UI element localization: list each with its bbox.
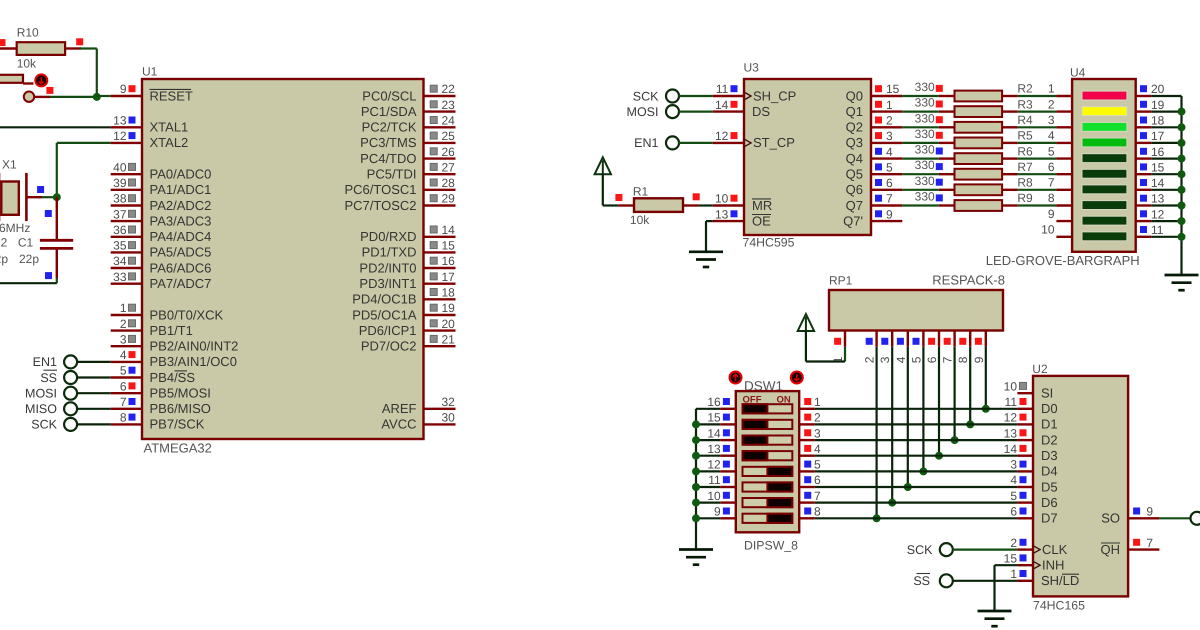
- R1 left pin state square (red): [615, 194, 622, 201]
- svg-text:5: 5: [814, 458, 821, 472]
- wire U3 Q5 to R7: [902, 173, 939, 175]
- junction DSW1 bus row 27: [692, 514, 700, 522]
- svg-text:22p: 22p: [19, 252, 39, 266]
- svg-text:9: 9: [1146, 505, 1153, 519]
- U1 pin 24 PC2/TCK: [424, 126, 456, 128]
- wire R8 to U4 pin 7: [1018, 189, 1057, 191]
- R7 left pin state square: [936, 163, 943, 170]
- svg-text:13: 13: [707, 442, 721, 456]
- svg-text:Q1: Q1: [846, 104, 863, 119]
- svg-text:330: 330: [915, 80, 935, 94]
- resistor R5 330 body: [955, 138, 1003, 149]
- svg-text:PA5/ADC5: PA5/ADC5: [150, 245, 212, 260]
- svg-text:PB0/T0/XCK: PB0/T0/XCK: [150, 307, 224, 322]
- svg-text:EN1: EN1: [634, 136, 658, 150]
- svg-text:PD6/ICP1: PD6/ICP1: [359, 323, 417, 338]
- U2 pin 14 D3: [1017, 455, 1033, 457]
- svg-text:OE: OE: [752, 213, 771, 228]
- U2 pin 7 QH: [1128, 548, 1159, 550]
- svg-text:13: 13: [113, 114, 127, 128]
- svg-text:SH/LD: SH/LD: [1041, 573, 1079, 588]
- svg-text:1: 1: [1048, 82, 1055, 96]
- wire DSW1 pin 4 to U2 D3: [815, 455, 1018, 457]
- svg-text:10: 10: [1004, 379, 1018, 393]
- power symbol VCC arrow near R1: [595, 157, 611, 174]
- DSW1 pin 6: [799, 486, 815, 488]
- DSW1 pin 8: [799, 517, 815, 519]
- ground symbol below U3 OE: [689, 250, 723, 253]
- R9 left pin state square: [936, 194, 943, 201]
- wire node to U1 RESET pin: [97, 95, 111, 97]
- svg-text:SH_CP: SH_CP: [753, 88, 796, 103]
- wire RP1 pin 6 down to D3 net: [938, 347, 940, 456]
- svg-text:1: 1: [120, 301, 127, 315]
- svg-text:14: 14: [715, 98, 729, 112]
- svg-text:U3: U3: [744, 61, 760, 75]
- svg-text:12: 12: [1151, 207, 1165, 221]
- wire RP1 pin 4 down to D5 net: [907, 347, 909, 487]
- svg-text:2: 2: [120, 317, 127, 331]
- capacitor C1 top plate: [40, 239, 73, 242]
- svg-text:4: 4: [1010, 473, 1017, 487]
- U3 pin 6 Q6: [871, 189, 902, 191]
- svg-text:35: 35: [113, 239, 127, 253]
- DSW1 pin 15: [720, 423, 736, 425]
- U1 pin 6 PB5/MOSI: [111, 392, 142, 394]
- svg-text:PD7/OC2: PD7/OC2: [361, 339, 417, 354]
- ground rail right of U4: [1180, 96, 1182, 275]
- wire DSW1 pin 5 to U2 D4: [815, 470, 1018, 472]
- svg-text:D6: D6: [1041, 495, 1058, 510]
- U1 pin 40 PA0/ADC0: [111, 173, 142, 175]
- pushbutton actuator (red circle): [35, 74, 47, 86]
- RP1 pin 9: [985, 331, 987, 347]
- svg-text:PA3/ADC3: PA3/ADC3: [150, 213, 212, 228]
- U2 pin 12 D1: [1017, 423, 1033, 425]
- U4 pin 3: [1056, 126, 1072, 128]
- svg-text:PC2/TCK: PC2/TCK: [362, 120, 417, 135]
- U1 pin 2 PB1/T1: [111, 329, 142, 331]
- svg-text:7: 7: [1146, 536, 1153, 550]
- R9 left pin: [939, 204, 955, 206]
- svg-text:ATMEGA32: ATMEGA32: [144, 441, 212, 456]
- DSW1 pin 10: [720, 501, 736, 503]
- svg-text:PB3/AIN1/OC0: PB3/AIN1/OC0: [150, 354, 237, 369]
- pin state square C1 bottom (blue): [45, 272, 52, 279]
- R3 right pin: [1002, 110, 1018, 112]
- U4 pin 4: [1056, 142, 1072, 144]
- svg-text:R4: R4: [1017, 113, 1033, 127]
- U1 pin 25 PC3/TMS: [424, 142, 456, 144]
- svg-text:22p: 22p: [0, 252, 8, 266]
- wire terminal MOSI to U3: [679, 110, 713, 112]
- svg-text:PC5/TDI: PC5/TDI: [367, 167, 417, 182]
- pin state square C1 top (blue): [45, 210, 52, 217]
- svg-text:23: 23: [442, 98, 456, 112]
- U1 pin 13 XTAL1: [111, 126, 142, 128]
- wire U4 pin 15 to ground rail: [1151, 173, 1181, 175]
- svg-text:9: 9: [120, 82, 127, 96]
- U4 pin 10: [1056, 236, 1072, 238]
- U2 pin 13 D2: [1017, 439, 1033, 441]
- svg-text:D3: D3: [1041, 448, 1058, 463]
- svg-text:SS: SS: [40, 371, 57, 385]
- junction RP1 pin 9 with D0 wire: [982, 405, 990, 413]
- svg-text:4: 4: [894, 356, 908, 363]
- resistor R9 330 body: [955, 200, 1003, 211]
- svg-text:Q0: Q0: [846, 88, 863, 103]
- DSW1 switch 5 slot (ON): [743, 467, 793, 476]
- RP1 pin 3: [891, 331, 893, 347]
- U1 pin 34 PA6/ADC6: [111, 267, 142, 269]
- capacitor C1 bottom plate: [40, 247, 73, 250]
- U1 pin 22 PC0/SCL: [424, 95, 456, 97]
- wire XTAL2 to crystal rail: [57, 142, 111, 144]
- U4 LED segment 5: [1082, 154, 1127, 163]
- svg-text:R1: R1: [633, 184, 649, 198]
- svg-text:3: 3: [814, 426, 821, 440]
- U2 pin 2 CLK: [1017, 548, 1033, 550]
- U4 pin 15: [1136, 173, 1152, 175]
- svg-text:2: 2: [886, 114, 893, 128]
- wire RP1 pin 7 down to D2 net: [953, 347, 955, 440]
- U1 pin 19 PD5/OC1A: [424, 314, 456, 316]
- svg-text:18: 18: [1151, 114, 1165, 128]
- svg-text:15: 15: [886, 82, 900, 96]
- U2 pin 10 SI: [1017, 392, 1033, 394]
- U4 LED segment 6: [1082, 169, 1127, 178]
- svg-text:4: 4: [814, 442, 821, 456]
- svg-text:RESET: RESET: [150, 88, 193, 103]
- svg-text:7: 7: [814, 489, 821, 503]
- svg-text:C2: C2: [0, 236, 8, 250]
- svg-text:Q2: Q2: [846, 120, 863, 135]
- R4 left pin: [939, 126, 955, 128]
- terminal MISO at right edge (cut): [1191, 512, 1200, 525]
- svg-text:D0: D0: [1041, 401, 1058, 416]
- U1 pin 39 PA1/ADC1: [111, 189, 142, 191]
- junction DSW1 bus row 24: [692, 467, 700, 475]
- svg-text:3: 3: [120, 332, 127, 346]
- U2 pin 4 D5: [1017, 486, 1033, 488]
- R5 left pin state square: [936, 132, 943, 139]
- wire DSW1 pin 13 to ground bus: [696, 455, 720, 457]
- resistor R6 330 body: [955, 153, 1003, 164]
- svg-text:SCK: SCK: [907, 543, 933, 557]
- U1 pin 26 PC4/TDO: [424, 157, 456, 159]
- svg-text:U1: U1: [142, 65, 158, 79]
- U3 pin 15 Q0: [871, 95, 902, 97]
- svg-text:20: 20: [1151, 82, 1165, 96]
- U1 pin 37 PA3/ADC3: [111, 220, 142, 222]
- wire SS terminal to U2 SH/LD: [953, 580, 1018, 582]
- wire SCK terminal to U2 CLK: [953, 548, 1018, 550]
- U4 LED segment 7: [1082, 185, 1127, 194]
- svg-text:R6: R6: [1017, 144, 1033, 158]
- R6 right pin: [1002, 157, 1018, 159]
- U4 LED segment 4: [1082, 138, 1127, 147]
- svg-text:SS: SS: [913, 574, 930, 588]
- svg-text:D7: D7: [1041, 511, 1058, 526]
- U4 pin 16: [1136, 157, 1152, 159]
- terminal MISO at U1: [64, 402, 77, 415]
- svg-text:39: 39: [113, 176, 127, 190]
- wire junction down to C1: [56, 197, 58, 239]
- svg-text:16: 16: [1151, 145, 1165, 159]
- svg-text:U2: U2: [1032, 362, 1048, 376]
- wire RP1 pin1 to power arrow: [844, 347, 846, 362]
- svg-text:DS: DS: [752, 104, 770, 119]
- svg-text:ST_CP: ST_CP: [753, 135, 795, 150]
- wire terminal SCK to U1: [77, 423, 111, 425]
- U4 pin 13: [1136, 204, 1152, 206]
- junction DSW1 bus row 26: [692, 499, 700, 507]
- terminal EN1 at U1: [64, 355, 77, 368]
- chip U3 74HC595 body: [744, 79, 871, 235]
- R4 left pin state square: [936, 116, 943, 123]
- svg-text:36: 36: [113, 223, 127, 237]
- svg-text:PC6/TOSC1: PC6/TOSC1: [344, 182, 416, 197]
- wire power arrow to R1: [602, 174, 604, 205]
- U3 pin 5 Q5: [871, 173, 902, 175]
- wire DSW1 pin 2 to U2 D1: [815, 423, 1018, 425]
- svg-text:9: 9: [1048, 207, 1055, 221]
- wire U3 Q0 to R2: [902, 95, 939, 97]
- DSW1 pin 12: [720, 470, 736, 472]
- resistor R8 330 body: [955, 184, 1003, 195]
- svg-text:9: 9: [886, 207, 893, 221]
- svg-text:RP1: RP1: [829, 274, 853, 288]
- terminal SCK at U2: [940, 543, 953, 556]
- svg-text:Q6: Q6: [846, 182, 863, 197]
- svg-text:PC4/TDO: PC4/TDO: [360, 151, 416, 166]
- DSW1 pin 1: [799, 408, 815, 410]
- U3 pin 12 ST_CP: [713, 142, 744, 144]
- svg-text:PB6/MISO: PB6/MISO: [150, 401, 211, 416]
- svg-text:PA1/ADC1: PA1/ADC1: [150, 182, 212, 197]
- wire DSW1 pin 12 to ground bus: [696, 470, 720, 472]
- dip switch DSW1 actuator button down: [791, 372, 803, 384]
- U4 LED segment 3: [1082, 122, 1127, 131]
- DSW1 pin 5: [799, 470, 815, 472]
- svg-text:12: 12: [715, 129, 729, 143]
- DSW1 switch 8 slot (ON): [743, 514, 793, 523]
- junction RP1 pin 6 with D3 wire: [935, 452, 943, 460]
- svg-text:10k: 10k: [630, 213, 650, 227]
- svg-text:330: 330: [915, 190, 935, 204]
- svg-text:PD1/TXD: PD1/TXD: [362, 245, 417, 260]
- U4 pin 6: [1056, 173, 1072, 175]
- svg-text:12: 12: [707, 458, 721, 472]
- wire DSW1 pin 8 to U2 D7: [815, 517, 1018, 519]
- svg-text:3: 3: [1048, 113, 1055, 127]
- wire RP1 pin 8 down to D1 net: [969, 347, 971, 425]
- svg-text:330: 330: [915, 143, 935, 157]
- svg-text:R9: R9: [1017, 191, 1033, 205]
- junction RP1 pin 4 with D5 wire: [904, 483, 912, 491]
- svg-text:14: 14: [1151, 176, 1165, 190]
- wire U3 Q7 to R9: [902, 204, 939, 206]
- svg-text:8: 8: [120, 411, 127, 425]
- crystal pin to junction: [28, 196, 43, 198]
- svg-text:330: 330: [915, 111, 935, 125]
- svg-text:330: 330: [915, 127, 935, 141]
- R8 left pin: [939, 189, 955, 191]
- svg-text:15: 15: [707, 411, 721, 425]
- junction on U4 ground rail row 6: [1178, 186, 1186, 194]
- svg-text:5: 5: [120, 364, 127, 378]
- svg-text:8: 8: [956, 356, 970, 363]
- resistor R7 330 body: [955, 169, 1003, 180]
- svg-text:DIPSW_8: DIPSW_8: [744, 539, 798, 553]
- U3 pin 7 Q7: [871, 204, 902, 206]
- junction on U4 ground rail row 4: [1178, 155, 1186, 163]
- svg-text:17: 17: [1151, 129, 1165, 143]
- svg-text:CLK: CLK: [1042, 542, 1068, 557]
- U1 pin 15 PD1/TXD: [424, 251, 456, 253]
- U1 pin 36 PA4/ADC4: [111, 236, 142, 238]
- wire U3 Q6 to R8: [902, 189, 939, 191]
- wire RP1 pin 2 down to D7 net: [875, 347, 877, 519]
- svg-text:U4: U4: [1070, 65, 1086, 79]
- crystal X1 right plate: [25, 173, 28, 221]
- wire R2 to U4 pin 1: [1018, 95, 1057, 97]
- U1 pin 23 PC1/SDA: [424, 110, 456, 112]
- wire DSW1 pin 6 to U2 D5: [815, 486, 1018, 488]
- U4 LED segment 1: [1082, 91, 1127, 100]
- svg-text:C1: C1: [18, 236, 34, 250]
- svg-text:14: 14: [442, 223, 456, 237]
- svg-text:30: 30: [442, 411, 456, 425]
- svg-text:PB4/SS: PB4/SS: [150, 370, 196, 385]
- U4 pin 12: [1136, 220, 1152, 222]
- U1 pin 16 PD2/INT0: [424, 267, 456, 269]
- svg-text:Q7': Q7': [843, 213, 863, 228]
- DSW1 pin 14: [720, 439, 736, 441]
- svg-text:PB7/SCK: PB7/SCK: [150, 417, 205, 432]
- svg-text:PC1/SDA: PC1/SDA: [361, 104, 417, 119]
- U1 pin 18 PD4/OC1B: [424, 298, 456, 300]
- wire U4 pin 16 to ground rail: [1151, 158, 1181, 160]
- chip U2 74HC165 body: [1033, 376, 1128, 597]
- U1 pin 29 PC7/TOSC2: [424, 204, 456, 206]
- svg-text:PD3/INT1: PD3/INT1: [359, 276, 416, 291]
- svg-text:D2: D2: [1041, 432, 1058, 447]
- svg-text:3: 3: [886, 129, 893, 143]
- svg-text:XTAL1: XTAL1: [150, 120, 189, 135]
- wire RP1 pin 3 down to D6 net: [891, 347, 893, 503]
- svg-text:PD4/OC1B: PD4/OC1B: [352, 292, 416, 307]
- wire R4 to U4 pin 3: [1018, 126, 1057, 128]
- RP1 pin 2: [875, 331, 877, 347]
- svg-text:16: 16: [707, 395, 721, 409]
- U1 pin 4 PB3/AIN1/OC0: [111, 361, 142, 363]
- U4 pin 17: [1136, 142, 1152, 144]
- ground symbol below DSW1 bus: [679, 548, 713, 551]
- DSW1 pin 13: [720, 455, 736, 457]
- pushbutton terminal circle: [24, 92, 34, 102]
- svg-text:26: 26: [442, 145, 456, 159]
- DSW1 switch 2 slot (OFF): [743, 420, 793, 429]
- svg-text:PA6/ADC6: PA6/ADC6: [150, 260, 212, 275]
- pushbutton body (cut off at left edge): [0, 75, 23, 83]
- wire U2 SO to MISO terminal: [1159, 517, 1190, 519]
- wire DSW1 pin 14 to ground bus: [696, 439, 720, 441]
- svg-text:PC3/TMS: PC3/TMS: [360, 135, 417, 150]
- svg-text:6: 6: [1048, 160, 1055, 174]
- R2 right pin: [1002, 95, 1018, 97]
- node junction at RESET net: [93, 93, 101, 101]
- svg-text:MOSI: MOSI: [25, 387, 57, 401]
- wire XTAL1 long wire to off-screen left: [0, 126, 111, 128]
- RP1 pin 8: [969, 331, 971, 347]
- R9 right pin: [1002, 204, 1018, 206]
- wire R7 to U4 pin 6: [1018, 173, 1057, 175]
- junction RP1 pin 3 with D6 wire: [888, 499, 896, 507]
- svg-text:330: 330: [915, 174, 935, 188]
- svg-text:R7: R7: [1017, 160, 1033, 174]
- svg-text:PD0/RXD: PD0/RXD: [360, 229, 416, 244]
- RP1 pin 6: [938, 331, 940, 347]
- svg-text:MR: MR: [752, 198, 772, 213]
- svg-text:LED-GROVE-BARGRAPH: LED-GROVE-BARGRAPH: [986, 253, 1140, 268]
- wire DSW1 pin 11 to ground bus: [696, 486, 720, 488]
- svg-text:R5: R5: [1017, 129, 1033, 143]
- U3 pin 13 OE: [713, 220, 744, 222]
- svg-text:PC0/SCL: PC0/SCL: [362, 88, 416, 103]
- R1 right pin state square (red): [693, 193, 700, 200]
- svg-text:9: 9: [714, 505, 721, 519]
- R8 right pin: [1002, 189, 1018, 191]
- svg-text:38: 38: [113, 192, 127, 206]
- svg-text:2: 2: [863, 356, 877, 363]
- svg-text:15: 15: [1151, 160, 1165, 174]
- svg-text:12: 12: [113, 129, 127, 143]
- svg-text:SO: SO: [1101, 511, 1120, 526]
- pushbutton wire stub: [23, 82, 34, 84]
- U1 pin 35 PA5/ADC5: [111, 251, 142, 253]
- wire terminal SCK to U3: [679, 95, 713, 97]
- U4 pin 8: [1056, 204, 1072, 206]
- terminal EN1 at U3: [666, 136, 679, 149]
- wire U3 Q1 to R3: [902, 110, 939, 112]
- svg-text:PD2/INT0: PD2/INT0: [359, 260, 416, 275]
- ground rail wire to off-screen left: [0, 282, 57, 284]
- U4 pin 9: [1056, 220, 1072, 222]
- svg-text:AVCC: AVCC: [381, 417, 416, 432]
- DSW1 pin 4: [799, 455, 815, 457]
- svg-text:3: 3: [878, 356, 892, 363]
- R8 left pin state square: [936, 179, 943, 186]
- wire DSW1 pin 15 to ground bus: [696, 423, 720, 425]
- svg-text:R10: R10: [17, 26, 39, 40]
- svg-text:6: 6: [1010, 505, 1017, 519]
- svg-text:INH: INH: [1042, 558, 1064, 573]
- U4 pin 19: [1136, 110, 1152, 112]
- svg-text:27: 27: [442, 160, 456, 174]
- svg-text:R8: R8: [1017, 176, 1033, 190]
- svg-text:4: 4: [1048, 129, 1055, 143]
- svg-text:34: 34: [113, 254, 127, 268]
- wire R1 to U3 MR: [699, 204, 713, 206]
- DSW1 pin 16: [720, 408, 736, 410]
- svg-text:15: 15: [442, 239, 456, 253]
- svg-text:74HC165: 74HC165: [1033, 599, 1085, 613]
- wire DSW1 pin 7 to U2 D6: [815, 502, 1018, 504]
- svg-text:14: 14: [707, 426, 721, 440]
- svg-text:Q4: Q4: [846, 151, 863, 166]
- R10 left pin state square (red): [0, 39, 6, 46]
